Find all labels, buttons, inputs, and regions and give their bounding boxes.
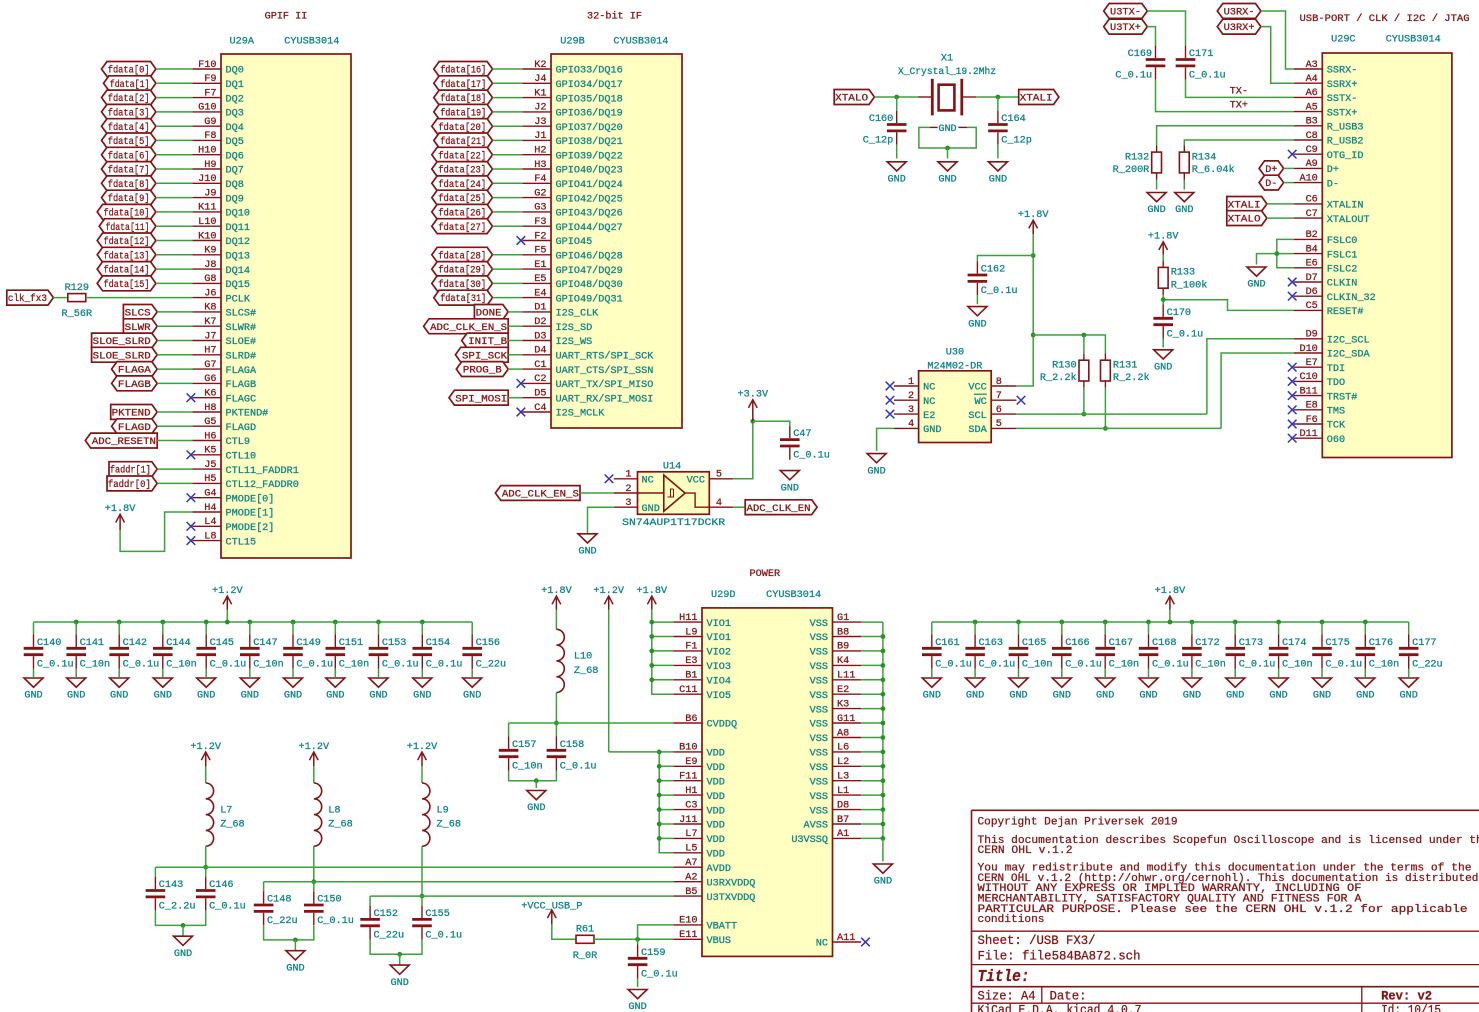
svg-text:VDD: VDD: [707, 792, 725, 803]
svg-text:B1: B1: [685, 671, 697, 682]
svg-text:C_0.1u: C_0.1u: [37, 659, 74, 670]
svg-text:VIO1: VIO1: [707, 619, 731, 630]
svg-text:DQ0: DQ0: [226, 66, 244, 77]
svg-text:H11: H11: [679, 613, 697, 624]
svg-text:DQ11: DQ11: [226, 223, 250, 234]
svg-text:B9: B9: [837, 642, 849, 653]
svg-text:D6: D6: [1306, 287, 1318, 298]
svg-text:UART_CTS/SPI_SSN: UART_CTS/SPI_SSN: [556, 365, 654, 377]
svg-text:GND: GND: [989, 175, 1007, 186]
svg-text:FSLC2: FSLC2: [1327, 265, 1358, 276]
svg-text:VDD: VDD: [707, 749, 725, 760]
svg-text:C_0.1u: C_0.1u: [1167, 329, 1204, 340]
svg-text:TX+: TX+: [1230, 101, 1248, 112]
svg-text:H7: H7: [204, 346, 216, 357]
svg-text:VSS: VSS: [810, 648, 828, 659]
svg-text:GPIO47/DQ29: GPIO47/DQ29: [556, 265, 623, 277]
svg-text:C_0.1u: C_0.1u: [382, 659, 419, 670]
svg-text:O60: O60: [1327, 435, 1345, 446]
svg-text:NC: NC: [816, 939, 828, 950]
svg-text:DQ8: DQ8: [226, 180, 244, 191]
svg-text:D-: D-: [1265, 179, 1277, 190]
svg-text:L11: L11: [837, 671, 855, 682]
svg-text:+1.2V: +1.2V: [407, 742, 438, 753]
svg-text:G7: G7: [204, 360, 216, 371]
svg-text:C8: C8: [1306, 131, 1318, 142]
svg-text:L10: L10: [198, 217, 216, 228]
svg-text:SPI_MOSI: SPI_MOSI: [455, 394, 507, 405]
svg-text:L7: L7: [220, 805, 232, 816]
svg-text:GPIO46/DQ28: GPIO46/DQ28: [556, 251, 623, 263]
svg-text:B8: B8: [837, 627, 849, 638]
svg-text:VIO1: VIO1: [707, 633, 731, 644]
svg-text:F10: F10: [198, 60, 216, 71]
svg-text:VSS: VSS: [810, 662, 828, 673]
svg-text:3: 3: [625, 498, 631, 509]
svg-text:C_10n: C_10n: [253, 659, 284, 670]
svg-text:A6: A6: [1306, 88, 1318, 99]
svg-text:VSS: VSS: [810, 720, 828, 731]
svg-text:fdata[28]: fdata[28]: [438, 250, 486, 262]
svg-text:VIO5: VIO5: [707, 691, 731, 702]
svg-text:fdata[23]: fdata[23]: [438, 165, 486, 177]
svg-text:C_10n: C_10n: [512, 761, 543, 772]
svg-text:WC: WC: [974, 397, 986, 408]
svg-text:C153: C153: [382, 638, 406, 649]
svg-text:ADC_CLK_EN_S: ADC_CLK_EN_S: [430, 323, 507, 334]
svg-text:E3: E3: [685, 656, 697, 667]
svg-text:C_0.1u: C_0.1u: [981, 286, 1018, 297]
svg-text:U3TX+: U3TX+: [1110, 23, 1141, 34]
svg-text:USB-PORT / CLK / I2C / JTAG: USB-PORT / CLK / I2C / JTAG: [1300, 13, 1470, 25]
svg-text:GND: GND: [938, 124, 956, 135]
svg-text:C165: C165: [1022, 638, 1046, 649]
svg-text:E2: E2: [837, 685, 849, 696]
svg-text:H5: H5: [204, 474, 216, 485]
svg-text:3: 3: [908, 405, 914, 416]
svg-text:G2: G2: [534, 188, 546, 199]
svg-text:D10: D10: [1299, 344, 1317, 355]
svg-text:VCC: VCC: [687, 476, 705, 487]
svg-text:DQ13: DQ13: [226, 252, 250, 263]
svg-text:DQ10: DQ10: [226, 209, 250, 220]
svg-text:KiCad E.D.A. kicad 4.0.7: KiCad E.D.A. kicad 4.0.7: [978, 1003, 1142, 1012]
svg-text:GND: GND: [1147, 205, 1165, 216]
svg-text:GPIO38/DQ21: GPIO38/DQ21: [556, 136, 623, 148]
svg-text:E5: E5: [534, 274, 546, 285]
svg-text:GND: GND: [923, 425, 941, 436]
svg-text:SLCS#: SLCS#: [226, 309, 257, 320]
svg-text:A7: A7: [685, 858, 697, 869]
svg-text:1: 1: [625, 470, 631, 481]
svg-text:GPIO34/DQ17: GPIO34/DQ17: [556, 79, 623, 91]
svg-text:C_0.1u: C_0.1u: [560, 761, 597, 772]
svg-text:D2: D2: [534, 317, 546, 328]
svg-text:fdata[7]: fdata[7]: [108, 165, 150, 177]
svg-text:NC: NC: [923, 383, 935, 394]
svg-text:ADC_CLK_EN_S: ADC_CLK_EN_S: [502, 490, 579, 501]
svg-text:A5: A5: [1306, 102, 1318, 113]
svg-text:GPIO48/DQ30: GPIO48/DQ30: [556, 279, 623, 291]
svg-text:+1.8V: +1.8V: [105, 504, 136, 515]
svg-text:R_200R: R_200R: [1113, 165, 1150, 176]
svg-text:U3TX-: U3TX-: [1110, 8, 1141, 19]
svg-text:D1: D1: [534, 303, 546, 314]
svg-text:J11: J11: [679, 815, 697, 826]
svg-text:R131: R131: [1113, 360, 1137, 371]
svg-text:C_0.1u: C_0.1u: [793, 451, 830, 462]
svg-text:VSS: VSS: [810, 633, 828, 644]
svg-text:fdata[0]: fdata[0]: [108, 65, 150, 77]
svg-text:VBUS: VBUS: [707, 936, 731, 947]
svg-text:4: 4: [716, 498, 722, 509]
svg-text:R_2.2k: R_2.2k: [1040, 372, 1077, 384]
svg-text:J5: J5: [204, 460, 216, 471]
svg-text:C5: C5: [1306, 301, 1318, 312]
svg-text:C_10n: C_10n: [166, 659, 197, 670]
svg-text:C_22u: C_22u: [267, 916, 298, 927]
svg-text:H6: H6: [204, 431, 216, 442]
svg-text:CTL12_FADDR0: CTL12_FADDR0: [226, 480, 299, 491]
svg-text:D8: D8: [837, 800, 849, 811]
svg-text:C_0.1u: C_0.1u: [210, 659, 247, 670]
svg-text:F11: F11: [679, 772, 697, 783]
svg-text:D7: D7: [1306, 273, 1318, 284]
svg-text:SSRX-: SSRX-: [1327, 66, 1358, 77]
svg-text:R134: R134: [1192, 152, 1216, 163]
svg-text:5: 5: [716, 470, 722, 481]
svg-text:C_10n: C_10n: [1195, 659, 1226, 670]
svg-text:AVSS: AVSS: [804, 821, 828, 832]
svg-text:M24M02-DR: M24M02-DR: [927, 362, 982, 373]
svg-text:UART_TX/SPI_MISO: UART_TX/SPI_MISO: [556, 379, 654, 391]
svg-text:SCL: SCL: [968, 411, 986, 422]
svg-text:GND: GND: [326, 691, 344, 702]
svg-text:E6: E6: [1306, 259, 1318, 270]
svg-text:GND: GND: [67, 691, 85, 702]
svg-text:fdata[16]: fdata[16]: [440, 65, 486, 77]
svg-text:D-: D-: [1327, 179, 1339, 190]
svg-text:GND: GND: [1247, 280, 1265, 291]
svg-text:Size: A4: Size: A4: [978, 988, 1036, 1003]
svg-text:NC: NC: [923, 397, 935, 408]
svg-text:K1: K1: [534, 88, 546, 99]
svg-text:C7: C7: [1306, 209, 1318, 220]
svg-text:U14: U14: [663, 461, 681, 472]
svg-text:C_10n: C_10n: [1369, 659, 1400, 670]
svg-text:C159: C159: [641, 948, 665, 959]
svg-text:R61: R61: [576, 925, 594, 936]
svg-text:F7: F7: [204, 88, 216, 99]
svg-text:GND: GND: [413, 691, 431, 702]
svg-text:fdata[29]: fdata[29]: [438, 265, 486, 277]
svg-text:GND: GND: [1175, 205, 1193, 216]
svg-text:C_0.1u: C_0.1u: [1115, 71, 1152, 82]
svg-text:CYUSB3014: CYUSB3014: [766, 590, 821, 601]
svg-text:fdata[27]: fdata[27]: [438, 222, 486, 234]
svg-text:H2: H2: [534, 146, 546, 157]
svg-text:C_10n: C_10n: [1022, 659, 1053, 670]
svg-text:+1.2V: +1.2V: [593, 586, 624, 597]
svg-text:C166: C166: [1065, 638, 1089, 649]
svg-text:GND: GND: [463, 691, 481, 702]
svg-text:B7: B7: [837, 815, 849, 826]
svg-text:H9: H9: [204, 160, 216, 171]
svg-text:U3RX-: U3RX-: [1224, 8, 1255, 19]
svg-text:U29B: U29B: [560, 37, 584, 48]
svg-text:J8: J8: [204, 260, 216, 271]
svg-text:fdata[10]: fdata[10]: [104, 208, 150, 220]
svg-text:H3: H3: [534, 160, 546, 171]
svg-text:C150: C150: [317, 895, 341, 906]
svg-text:VSS: VSS: [810, 763, 828, 774]
svg-text:E7: E7: [1306, 358, 1318, 369]
svg-text:C_10n: C_10n: [339, 659, 370, 670]
svg-text:C_2.2u: C_2.2u: [159, 902, 196, 913]
svg-text:VSS: VSS: [810, 677, 828, 688]
svg-text:DQ5: DQ5: [226, 137, 244, 148]
svg-text:I2S_SD: I2S_SD: [556, 323, 593, 334]
svg-text:FSLC1: FSLC1: [1327, 250, 1358, 261]
svg-text:K9: K9: [204, 246, 216, 257]
svg-text:+1.2V: +1.2V: [212, 586, 243, 597]
svg-text:DQ14: DQ14: [226, 266, 250, 277]
svg-text:C152: C152: [374, 909, 398, 920]
svg-text:L3: L3: [837, 772, 849, 783]
svg-text:GPIO43/DQ26: GPIO43/DQ26: [556, 208, 623, 220]
svg-text:fdata[25]: fdata[25]: [438, 193, 486, 205]
svg-text:VSS: VSS: [810, 749, 828, 760]
svg-text:GND: GND: [874, 877, 892, 888]
svg-text:C_0.1u: C_0.1u: [935, 659, 972, 670]
svg-text:J10: J10: [198, 174, 216, 185]
svg-text:RESET#: RESET#: [1327, 307, 1364, 318]
svg-text:X_Crystal_19.2Mhz: X_Crystal_19.2Mhz: [898, 66, 996, 78]
svg-text:U30: U30: [946, 347, 964, 358]
svg-text:clk_fx3: clk_fx3: [8, 293, 47, 305]
svg-text:GND: GND: [391, 978, 409, 989]
svg-text:E1: E1: [534, 260, 546, 271]
svg-text:L6: L6: [837, 743, 849, 754]
svg-text:R_0R: R_0R: [573, 951, 597, 962]
svg-text:VDD: VDD: [707, 821, 725, 832]
svg-text:VSS: VSS: [810, 777, 828, 788]
svg-text:L10: L10: [574, 652, 592, 663]
svg-text:TDO: TDO: [1327, 378, 1345, 389]
svg-text:C_0.1u: C_0.1u: [1152, 659, 1189, 670]
svg-text:GPIO44/DQ27: GPIO44/DQ27: [556, 222, 623, 234]
svg-text:C155: C155: [425, 909, 449, 920]
svg-text:E8: E8: [1306, 401, 1318, 412]
svg-text:X1: X1: [941, 54, 953, 65]
svg-text:FSLC0: FSLC0: [1327, 236, 1358, 247]
svg-text:C173: C173: [1239, 638, 1263, 649]
svg-text:4: 4: [908, 419, 914, 430]
svg-text:C175: C175: [1325, 638, 1349, 649]
svg-text:A2: A2: [685, 873, 697, 884]
svg-text:D4: D4: [534, 346, 546, 357]
svg-text:GND: GND: [781, 483, 799, 494]
svg-text:GND: GND: [1053, 691, 1071, 702]
svg-text:I2C_SCL: I2C_SCL: [1327, 336, 1370, 347]
svg-text:J6: J6: [204, 288, 216, 299]
svg-text:K4: K4: [837, 656, 849, 667]
svg-text:G1: G1: [837, 613, 849, 624]
svg-text:C_12p: C_12p: [1001, 136, 1032, 147]
svg-text:C146: C146: [209, 880, 233, 891]
svg-text:PCLK: PCLK: [226, 294, 251, 305]
svg-text:U3RX+: U3RX+: [1224, 23, 1255, 34]
svg-text:CTL15: CTL15: [226, 537, 257, 548]
svg-text:U3RXVDDQ: U3RXVDDQ: [707, 878, 756, 889]
svg-text:PKTEND#: PKTEND#: [226, 409, 269, 420]
svg-text:1: 1: [908, 377, 914, 388]
svg-text:D9: D9: [1306, 330, 1318, 341]
svg-text:C140: C140: [37, 638, 61, 649]
svg-text:Date:: Date:: [1050, 988, 1087, 1003]
svg-text:B11: B11: [1299, 386, 1317, 397]
svg-text:L1: L1: [837, 786, 849, 797]
svg-text:fdata[13]: fdata[13]: [104, 250, 150, 262]
svg-text:R_56R: R_56R: [62, 309, 93, 320]
svg-text:GPIO39/DQ22: GPIO39/DQ22: [556, 150, 623, 162]
svg-text:VIO4: VIO4: [707, 677, 731, 688]
svg-text:C144: C144: [166, 638, 190, 649]
svg-text:VSS: VSS: [810, 705, 828, 716]
svg-text:DQ9: DQ9: [226, 194, 244, 205]
svg-text:H10: H10: [198, 146, 216, 157]
svg-text:C172: C172: [1195, 638, 1219, 649]
svg-text:F2: F2: [534, 231, 546, 242]
svg-text:DQ15: DQ15: [226, 280, 250, 291]
svg-text:I2S_MCLK: I2S_MCLK: [556, 409, 606, 420]
svg-text:L2: L2: [837, 757, 849, 768]
svg-text:CYUSB3014: CYUSB3014: [1386, 34, 1441, 45]
svg-text:Title:: Title:: [978, 967, 1030, 986]
svg-text:L5: L5: [685, 844, 697, 855]
svg-text:GND: GND: [1096, 691, 1114, 702]
svg-text:E4: E4: [534, 288, 546, 299]
svg-text:GND: GND: [1154, 363, 1172, 374]
svg-text:PROG_B: PROG_B: [463, 366, 502, 377]
svg-text:B4: B4: [1306, 244, 1318, 255]
svg-text:fdata[30]: fdata[30]: [438, 279, 486, 291]
svg-text:C156: C156: [476, 638, 500, 649]
svg-text:7: 7: [996, 391, 1002, 402]
svg-text:ADC_CLK_EN: ADC_CLK_EN: [747, 504, 811, 515]
svg-text:DQ12: DQ12: [226, 237, 250, 248]
svg-text:GND: GND: [286, 963, 304, 974]
svg-text:C177: C177: [1412, 638, 1436, 649]
svg-text:Copyright Dejan Priversek 2019: Copyright Dejan Priversek 2019: [978, 817, 1178, 829]
svg-text:ADC_RESETN: ADC_RESETN: [92, 437, 156, 448]
svg-text:VDD: VDD: [707, 763, 725, 774]
svg-text:TMS: TMS: [1327, 407, 1345, 418]
svg-text:DQ7: DQ7: [226, 166, 244, 177]
svg-text:GND: GND: [1139, 691, 1157, 702]
svg-text:conditions: conditions: [978, 914, 1045, 926]
svg-text:C_0.1u: C_0.1u: [296, 659, 333, 670]
svg-text:C9: C9: [1306, 145, 1318, 156]
svg-text:C1: C1: [534, 360, 546, 371]
svg-text:DQ2: DQ2: [226, 94, 244, 105]
svg-text:GND: GND: [628, 1002, 646, 1012]
svg-text:XTALIN: XTALIN: [1327, 201, 1364, 212]
svg-text:C4: C4: [534, 403, 546, 414]
svg-text:C142: C142: [123, 638, 147, 649]
svg-text:+1.8V: +1.8V: [541, 586, 572, 597]
svg-text:XTALO: XTALO: [835, 94, 868, 105]
svg-text:C_0.1u: C_0.1u: [425, 930, 462, 941]
svg-text:AVDD: AVDD: [707, 864, 731, 875]
svg-text:F5: F5: [534, 246, 546, 257]
svg-text:DQ4: DQ4: [226, 123, 244, 134]
svg-text:G5: G5: [204, 417, 216, 428]
svg-text:E11: E11: [679, 930, 697, 941]
svg-text:FLAGA: FLAGA: [226, 366, 257, 377]
svg-text:GND: GND: [938, 175, 956, 186]
svg-text:GPIO36/DQ19: GPIO36/DQ19: [556, 108, 623, 120]
svg-text:PARTICULAR PURPOSE. Please see: PARTICULAR PURPOSE. Please see the CERN …: [978, 904, 1468, 916]
svg-text:fdata[3]: fdata[3]: [108, 108, 150, 120]
svg-text:C_0.1u: C_0.1u: [1239, 659, 1276, 670]
svg-text:GND: GND: [1009, 691, 1027, 702]
svg-text:C_0.1u: C_0.1u: [426, 659, 463, 670]
svg-text:C163: C163: [979, 638, 1003, 649]
svg-text:fdata[22]: fdata[22]: [438, 150, 486, 162]
svg-text:fdata[31]: fdata[31]: [440, 293, 486, 305]
svg-text:GND: GND: [923, 691, 941, 702]
svg-text:E9: E9: [685, 757, 697, 768]
svg-text:FLAGC: FLAGC: [226, 394, 257, 405]
svg-text:R130: R130: [1052, 360, 1076, 371]
svg-text:B2: B2: [1306, 230, 1318, 241]
svg-text:Rev: v2: Rev: v2: [1381, 988, 1432, 1003]
svg-text:K3: K3: [837, 699, 849, 710]
svg-text:F1: F1: [685, 642, 697, 653]
svg-text:C_10n: C_10n: [1282, 659, 1313, 670]
svg-text:J7: J7: [204, 331, 216, 342]
svg-text:GND: GND: [867, 466, 885, 477]
svg-text:VCC: VCC: [968, 383, 986, 394]
svg-text:VDD: VDD: [707, 777, 725, 788]
svg-text:C11: C11: [679, 685, 697, 696]
svg-text:GND: GND: [174, 949, 192, 960]
svg-text:C_0.1u: C_0.1u: [1189, 71, 1226, 82]
svg-text:VDD: VDD: [707, 806, 725, 817]
svg-text:C6: C6: [1306, 195, 1318, 206]
svg-text:+1.8V: +1.8V: [1155, 586, 1186, 597]
svg-text:U29C: U29C: [1331, 34, 1355, 45]
svg-text:VDD: VDD: [707, 835, 725, 846]
svg-text:A1: A1: [837, 829, 849, 840]
svg-text:GND: GND: [1356, 691, 1374, 702]
svg-text:A4: A4: [1306, 74, 1318, 85]
svg-text:D+: D+: [1327, 165, 1339, 176]
svg-text:C_0.1u: C_0.1u: [1325, 659, 1362, 670]
svg-text:VBATT: VBATT: [707, 922, 738, 933]
svg-text:fdata[8]: fdata[8]: [108, 179, 150, 191]
svg-text:I2C_SDA: I2C_SDA: [1327, 350, 1371, 361]
svg-text:G11: G11: [837, 714, 855, 725]
svg-text:fdata[18]: fdata[18]: [440, 93, 486, 105]
svg-text:CTL9: CTL9: [226, 437, 250, 448]
svg-text:L8: L8: [328, 805, 340, 816]
svg-text:K11: K11: [198, 203, 216, 214]
svg-text:DQ6: DQ6: [226, 151, 244, 162]
svg-text:C141: C141: [80, 638, 104, 649]
svg-text:L4: L4: [204, 517, 216, 528]
